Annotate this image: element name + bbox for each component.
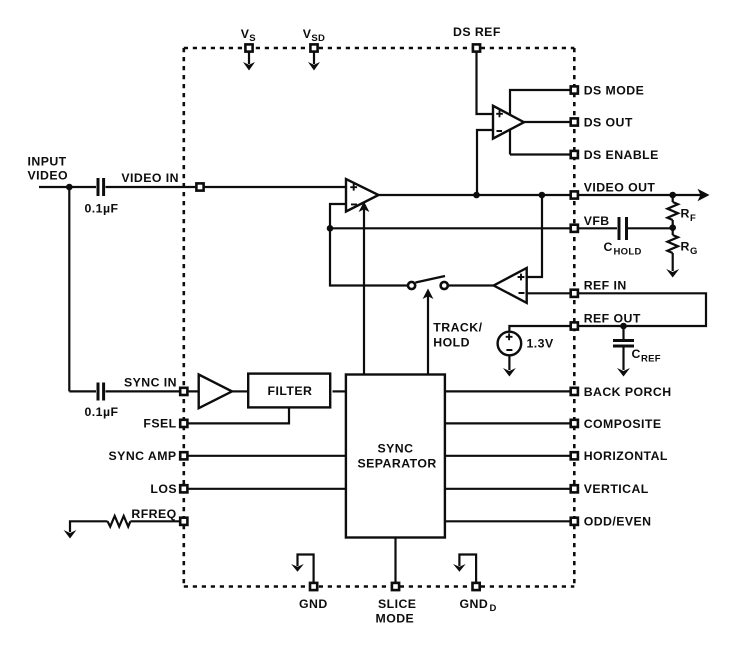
svg-text:REF OUT: REF OUT: [584, 311, 641, 325]
svg-text:SEPARATOR: SEPARATOR: [358, 457, 437, 471]
wire RFREQ to resistor: [130, 520, 183, 522]
pin REF IN: [571, 290, 578, 297]
chip boundary dashed top: [184, 47, 575, 50]
capacitor 0.1uF video input: [98, 178, 104, 196]
resistor R_F: [667, 195, 678, 228]
pin DS REF: [473, 44, 480, 51]
svg-text:DS MODE: DS MODE: [584, 83, 645, 97]
svg-text:REF: REF: [641, 354, 661, 365]
arrow V_S supply: [243, 52, 255, 71]
wire video amp output to VIDEO OUT: [379, 194, 705, 196]
wire video cap to VIDEO IN pin and amp: [106, 186, 347, 188]
wire comparator minus input down to video out line: [477, 130, 493, 195]
svg-text:HOLD: HOLD: [433, 336, 470, 350]
node VFB minus junction: [327, 225, 334, 232]
amp sync input buffer: [199, 375, 232, 409]
pin REF OUT: [571, 322, 578, 329]
svg-text:SLICE: SLICE: [378, 597, 416, 611]
svg-text:1.3V: 1.3V: [527, 337, 554, 351]
svg-text:INPUT: INPUT: [28, 155, 67, 169]
ground hook GND: [291, 555, 313, 583]
block SYNC SEPARATOR: [346, 375, 445, 538]
wire resistor to ground: [70, 521, 108, 532]
wire DS MODE to feedback vertical: [510, 90, 570, 155]
svg-text:MODE: MODE: [376, 612, 415, 626]
node R_F R_G junction: [669, 224, 676, 231]
arrow TRACK/HOLD up to switch: [427, 294, 429, 375]
chip boundary dashed right: [573, 48, 576, 587]
pin V_S: [245, 44, 252, 51]
ground hook GND_D: [453, 555, 476, 583]
pin HORIZONTAL: [571, 452, 578, 459]
svg-text:C: C: [632, 347, 641, 361]
svg-text:TRACK/: TRACK/: [433, 321, 482, 335]
wire REF IN external loop: [574, 293, 706, 326]
resistor RFREQ external: [108, 516, 131, 527]
node input video tee: [66, 184, 73, 191]
svg-text:COMPOSITE: COMPOSITE: [584, 417, 662, 431]
wire VERTICAL: [445, 488, 574, 490]
wire REF amp minus to REF IN pin: [527, 292, 575, 294]
switch track/hold: [408, 276, 448, 289]
pin VIDEO IN: [196, 183, 203, 190]
wire DS ENABLE: [510, 153, 570, 155]
wire SLICE MODE up into sync separator: [394, 538, 396, 587]
op-amp video amp: [346, 179, 379, 212]
wire HORIZONTAL: [445, 455, 574, 457]
svg-text:BACK PORCH: BACK PORCH: [584, 385, 672, 399]
svg-text:FSEL: FSEL: [143, 417, 176, 431]
node C_REF tap: [620, 323, 627, 330]
pin COMPOSITE: [571, 420, 578, 427]
pin VIDEO OUT: [571, 191, 578, 198]
wire REF amp plus up to video out line: [527, 195, 542, 277]
svg-text:VIDEO IN: VIDEO IN: [121, 171, 179, 185]
pin FSEL: [180, 420, 187, 427]
pin DS MODE: [571, 86, 578, 93]
pin V_SD: [310, 44, 317, 51]
ground RFREQ: [64, 530, 77, 539]
svg-text:HORIZONTAL: HORIZONTAL: [584, 449, 668, 463]
svg-text:VFB: VFB: [584, 214, 610, 228]
ground below C_REF: [617, 368, 630, 377]
svg-text:SYNC: SYNC: [378, 442, 414, 456]
svg-text:SD: SD: [311, 33, 325, 44]
wire sync cap to SYNC IN pin: [106, 390, 199, 392]
svg-text:R: R: [681, 240, 690, 254]
pin DS OUT: [571, 118, 578, 125]
wire INPUT VIDEO to video cap: [39, 186, 96, 188]
op-amp REF buffer (points left): [494, 268, 527, 303]
svg-text:VIDEO: VIDEO: [28, 169, 69, 183]
svg-text:HOLD: HOLD: [614, 247, 642, 258]
svg-text:D: D: [490, 603, 497, 614]
ground below 1.3V: [503, 368, 516, 377]
op-amp DS comparator: [493, 106, 524, 139]
node DS comparator tap: [473, 192, 480, 199]
svg-text:GND: GND: [460, 597, 489, 611]
svg-text:ODD/EVEN: ODD/EVEN: [584, 515, 652, 529]
wire switch to REF amp tip: [449, 284, 494, 286]
pin BACK PORCH: [571, 388, 578, 395]
svg-text:C: C: [604, 240, 613, 254]
svg-text:DS REF: DS REF: [453, 25, 501, 39]
wire SYNC AMP: [184, 455, 346, 457]
svg-text:F: F: [690, 213, 696, 224]
pin VFB: [571, 225, 578, 232]
svg-text:RFREQ: RFREQ: [131, 507, 176, 521]
chip boundary dashed bottom: [184, 585, 575, 588]
pin ODD/EVEN: [571, 518, 578, 525]
wire DS OUT: [524, 121, 570, 123]
pin SLICE MODE: [392, 583, 399, 590]
svg-text:DS OUT: DS OUT: [584, 115, 633, 129]
svg-text:S: S: [249, 33, 256, 44]
arrow V_SD supply: [308, 52, 320, 71]
svg-text:FILTER: FILTER: [268, 384, 313, 398]
wire video amp minus to VFB line and switch: [330, 204, 408, 286]
wire FILTER to sync separator: [333, 390, 347, 392]
svg-text:G: G: [690, 246, 698, 257]
svg-text:0.1µF: 0.1µF: [85, 202, 119, 216]
svg-text:SYNC AMP: SYNC AMP: [109, 449, 177, 463]
svg-text:R: R: [681, 207, 690, 221]
capacitor C_HOLD: [619, 217, 673, 240]
pin GND_D: [473, 583, 480, 590]
svg-text:VERTICAL: VERTICAL: [584, 482, 649, 496]
wire sync amp to FILTER: [232, 390, 248, 392]
wire ODD/EVEN: [445, 520, 574, 522]
capacitor C_REF: [613, 326, 634, 370]
source 1.3V: [498, 326, 575, 370]
chip boundary dashed left: [183, 48, 186, 587]
wire COMPOSITE: [445, 422, 574, 424]
pin VERTICAL: [571, 485, 578, 492]
svg-text:GND: GND: [299, 597, 328, 611]
node REF amp tap: [539, 192, 546, 199]
svg-text:LOS: LOS: [150, 482, 177, 496]
arrow VIDEO OUT right: [698, 189, 710, 201]
capacitor 0.1uF sync input: [98, 383, 104, 401]
pin DS ENABLE: [571, 151, 578, 158]
svg-text:0.1µF: 0.1µF: [85, 405, 119, 419]
pin SYNC IN: [180, 388, 187, 395]
pin GND: [310, 583, 317, 590]
arrow into video amp bottom (hold control): [363, 207, 365, 375]
svg-text:SYNC IN: SYNC IN: [124, 376, 177, 390]
svg-text:VIDEO OUT: VIDEO OUT: [584, 181, 656, 195]
wire input video down to sync branch: [68, 187, 70, 391]
resistor R_G: [667, 228, 678, 271]
wire VFB line: [330, 227, 617, 229]
block FILTER: [248, 374, 330, 408]
pin SYNC AMP: [180, 452, 187, 459]
pin LOS: [180, 485, 187, 492]
wire FSEL up into FILTER: [184, 408, 289, 423]
ground below R_G: [666, 269, 679, 278]
wire BACK PORCH: [445, 390, 574, 392]
svg-text:DS ENABLE: DS ENABLE: [584, 148, 659, 162]
wire DS REF down to comparator plus input: [477, 48, 494, 114]
pin RFREQ: [180, 518, 187, 525]
node R_F top: [669, 192, 676, 199]
svg-text:REF IN: REF IN: [584, 279, 627, 293]
wire LOS: [184, 488, 346, 490]
wire sync branch to sync cap: [69, 390, 96, 392]
